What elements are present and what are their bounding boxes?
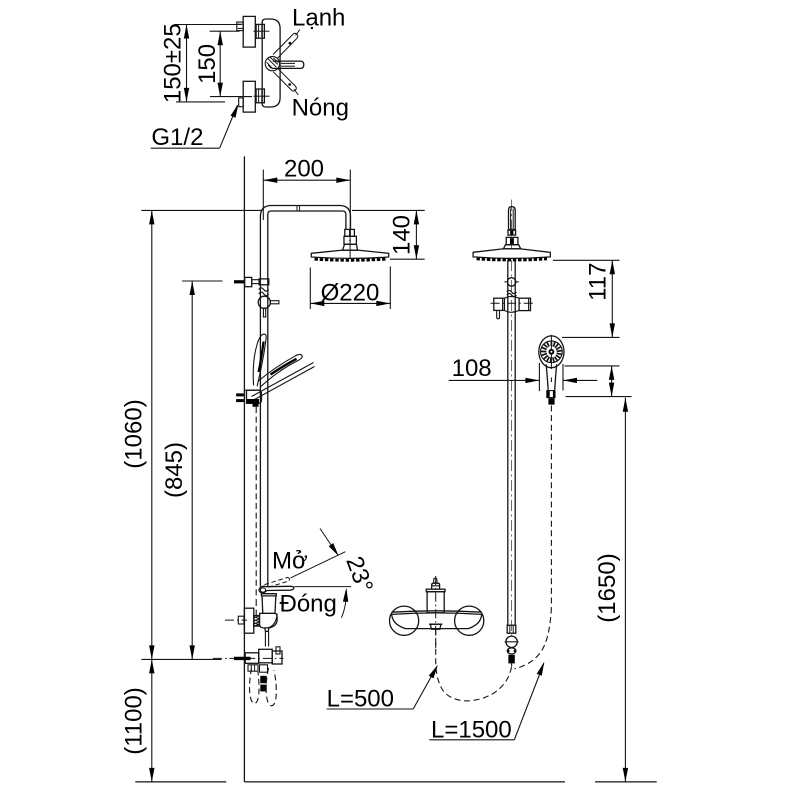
- svg-text:(1060): (1060): [121, 399, 148, 468]
- svg-text:200: 200: [284, 156, 324, 183]
- svg-text:Mở: Mở: [272, 548, 308, 575]
- svg-text:150: 150: [194, 44, 221, 84]
- svg-text:(1650): (1650): [594, 553, 621, 622]
- svg-text:150±25: 150±25: [160, 23, 187, 103]
- svg-text:Nóng: Nóng: [292, 95, 349, 122]
- svg-text:Ø220: Ø220: [321, 280, 380, 307]
- svg-text:Đóng: Đóng: [280, 591, 337, 618]
- svg-text:108: 108: [452, 355, 492, 382]
- svg-text:Lạnh: Lạnh: [292, 5, 345, 32]
- svg-text:G1/2: G1/2: [151, 124, 203, 151]
- svg-text:(1100): (1100): [121, 687, 148, 755]
- svg-text:(845): (845): [161, 442, 188, 498]
- svg-text:117: 117: [585, 263, 612, 301]
- svg-text:140: 140: [389, 215, 416, 255]
